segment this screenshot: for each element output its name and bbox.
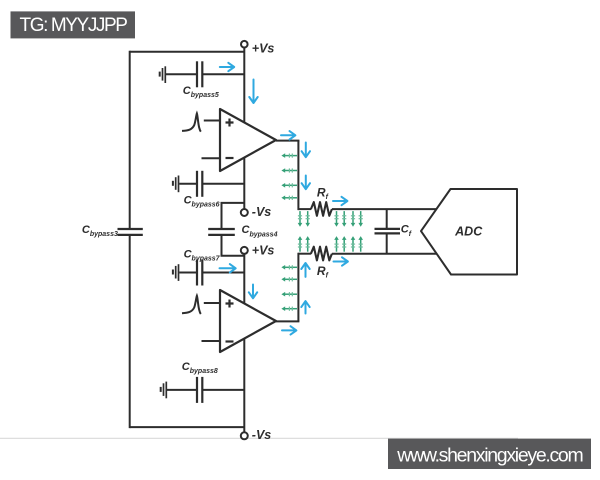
wire: bottom rail from left branch to -Vs node — [130, 426, 245, 428]
wire: Cf lower lead — [386, 234, 388, 254]
wire: left branch vertical lower segment — [129, 236, 131, 428]
wire: U2 + input stub — [204, 302, 220, 304]
svg-text:Cbypass7: Cbypass7 — [184, 248, 221, 262]
op-amp U2 minus input symbol — [226, 340, 234, 342]
capacitor Cbypass8 — [197, 377, 202, 403]
wire: ground to Cbypass5 left plate — [166, 73, 197, 75]
current arrows (green) down from top line — [298, 211, 363, 227]
svg-text:Cbypass5: Cbypass5 — [183, 85, 219, 99]
capacitor Cbypass7 — [197, 260, 202, 286]
op-amp U1 plus input symbol — [226, 119, 234, 127]
svg-text:-Vs: -Vs — [252, 428, 271, 442]
wire: U2 negative supply down to bottom -Vs — [243, 338, 245, 432]
svg-text:TG: MYYJJPP: TG: MYYJJPP — [20, 15, 128, 36]
svg-text:www.shenxingxieye.com: www.shenxingxieye.com — [396, 444, 582, 466]
wire: vertical from U1 output down to Rf line — [297, 141, 299, 211]
ground for Cbypass6 — [173, 176, 179, 193]
wire: +Vs supply vertical to op-amp U1 — [243, 48, 245, 123]
ground for Cbypass7 — [173, 264, 179, 281]
svg-text:ADC: ADC — [454, 225, 483, 239]
current arrows (green) up from bottom line — [298, 236, 363, 252]
op-amp U2 plus input symbol — [226, 300, 234, 308]
ground for Cbypass8 — [161, 382, 167, 399]
wire: bottom line elbow to resistor — [298, 253, 311, 255]
wire: top line elbow to resistor — [298, 208, 311, 210]
op-amp U1 (top) — [220, 109, 276, 171]
pulse waveform at U1 + input — [182, 113, 201, 131]
current arrows (green) leftward on U1 output vertical — [281, 153, 297, 200]
wire: U2 output to vertical elbow — [276, 320, 299, 322]
wire: Cbypass7 right plate to +Vs rail — [202, 272, 244, 274]
capacitor Cbypass5 — [197, 61, 202, 87]
capacitor Cbypass4 — [208, 229, 235, 235]
ADC block — [421, 189, 517, 275]
node -Vs (bottom terminal) — [241, 432, 248, 439]
svg-text:Cbypass8: Cbypass8 — [182, 361, 218, 375]
capacitor Cf — [375, 229, 401, 234]
resistor Rf (bottom) — [311, 247, 332, 261]
wire: top rail from left branch to +Vs — [130, 51, 245, 53]
current arrow (blue) right after bottom Rf — [334, 257, 348, 265]
wire: Cbypass4 top connection — [222, 203, 245, 228]
wire: ground to Cbypass8 left plate — [167, 389, 197, 391]
node +Vs (top terminal) — [241, 41, 248, 48]
wire: +Vs supply vertical to op-amp U2 — [243, 254, 245, 304]
current arrow (blue) right at U1 output — [281, 131, 295, 139]
current arrow (blue) right after top Rf — [333, 197, 347, 205]
resistor Rf (top) — [311, 202, 332, 216]
wire: top line from Rf to ADC — [332, 208, 437, 210]
wire: Cbypass8 right plate to supply line — [202, 389, 244, 391]
TG badge — [11, 11, 136, 38]
svg-text:+Vs: +Vs — [252, 41, 275, 55]
wire: ground to Cbypass6 left plate — [179, 183, 196, 185]
wire: vertical from U2 output up to Rf line — [297, 253, 299, 322]
current arrow (blue) up on U2 output vertical 1 — [301, 263, 309, 277]
wire: Cbypass6 right plate to -Vs rail — [202, 183, 244, 185]
wire: Cbypass5 right plate to +Vs rail — [202, 73, 244, 75]
wire: U1 - input stub — [202, 157, 221, 159]
capacitor Cbypass6 — [197, 171, 202, 197]
wire: U1 output to vertical elbow — [276, 140, 299, 142]
current arrow (blue) down on U1 output vertical 2 — [302, 176, 310, 190]
svg-text:Rf: Rf — [317, 264, 329, 280]
op-amp U2 (bottom) — [220, 290, 276, 352]
wire: U2 - input stub — [202, 340, 221, 342]
op-amp U1 minus input symbol — [226, 157, 234, 159]
node -Vs (middle) — [241, 209, 248, 216]
svg-text:-Vs: -Vs — [252, 205, 271, 219]
wire: left branch vertical upper segment — [129, 51, 131, 229]
ground for Cbypass5 — [160, 66, 166, 83]
current arrow (blue) down below middle +Vs — [249, 285, 257, 299]
current arrows (green) leftward on U2 output vertical — [281, 265, 297, 311]
current arrow (blue) right at U2 output — [282, 326, 296, 334]
current arrow (blue) up on U2 output vertical 2 — [301, 301, 309, 313]
wire: ground to Cbypass7 left plate — [179, 272, 196, 274]
wire: Cf upper lead — [386, 209, 388, 229]
wire: U1 + input stub — [204, 120, 220, 122]
wire: U1 negative supply to -Vs node — [243, 157, 245, 209]
current arrow (blue) down below +Vs — [249, 80, 257, 104]
svg-text:+Vs: +Vs — [252, 243, 275, 257]
node +Vs (middle) — [241, 247, 248, 254]
svg-text:Cbypass3: Cbypass3 — [82, 224, 118, 238]
current arrow (blue) down on U1 output vertical 1 — [302, 143, 310, 158]
pulse waveform at U2 + input — [182, 296, 201, 314]
current arrow (blue) right on Cbypass7 wire — [220, 264, 236, 272]
wire: bottom line from Rf to ADC — [332, 253, 437, 255]
svg-text:Rf: Rf — [317, 185, 329, 201]
current arrow (blue) right on Cbypass5 wire — [220, 63, 234, 71]
svg-text:Cf: Cf — [401, 224, 412, 238]
wire: Cbypass4 bottom connection — [222, 236, 245, 256]
svg-text:Cbypass4: Cbypass4 — [242, 224, 278, 238]
capacitor Cbypass3 — [118, 229, 143, 235]
watermark badge — [388, 439, 591, 469]
faint divider line — [0, 437, 518, 439]
